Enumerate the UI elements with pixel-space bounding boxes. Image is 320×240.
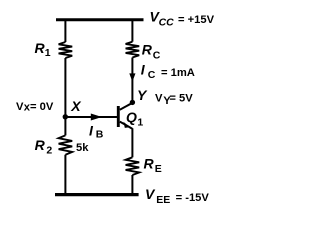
label Q1 xyxy=(126,109,143,128)
label RE xyxy=(144,156,162,176)
svg-text:CC: CC xyxy=(159,16,175,28)
transistor Q1 xyxy=(118,103,132,129)
label IC = 1mA xyxy=(141,62,195,81)
svg-text:X: X xyxy=(70,98,82,114)
wire RC to node Y xyxy=(131,58,133,103)
svg-text:C: C xyxy=(148,69,156,81)
svg-text:2: 2 xyxy=(46,145,52,157)
wire VCC rail to R1 xyxy=(64,19,66,43)
svg-text:V: V xyxy=(16,101,24,113)
wire emitter to RE xyxy=(131,128,133,157)
node X junction dot xyxy=(63,114,68,119)
svg-text:R: R xyxy=(142,42,153,58)
svg-text:Q: Q xyxy=(126,109,137,125)
svg-text:R: R xyxy=(35,137,46,153)
label RC xyxy=(142,42,161,62)
net label VEE = -15V xyxy=(145,186,209,206)
wire R1 to node X xyxy=(64,58,66,117)
wire VCC rail xyxy=(56,18,144,21)
current arrow IB xyxy=(91,114,102,121)
resistor R2 xyxy=(59,135,73,154)
node Y junction dot xyxy=(130,100,135,105)
svg-text:= 5V: = 5V xyxy=(169,92,193,104)
wire RE to VEE rail xyxy=(131,175,133,196)
wire VCC rail to RC xyxy=(131,19,133,42)
svg-text:EE: EE xyxy=(156,194,170,206)
svg-text:5k: 5k xyxy=(76,142,89,154)
svg-text:V: V xyxy=(145,186,156,202)
label Vx = 0V xyxy=(16,101,54,113)
svg-text:= +15V: = +15V xyxy=(178,14,215,26)
label R2 xyxy=(35,137,53,157)
label IB xyxy=(89,122,104,140)
label VY = 5V xyxy=(155,92,193,106)
svg-text:I: I xyxy=(141,62,146,78)
svg-text:= 0V: = 0V xyxy=(30,101,54,113)
net label VCC = +15V xyxy=(150,9,215,29)
wire R2 to VEE rail xyxy=(64,155,66,196)
wire node X to R2 xyxy=(64,117,66,136)
svg-text:E: E xyxy=(155,163,162,175)
svg-text:1: 1 xyxy=(137,116,143,128)
svg-text:I: I xyxy=(89,122,94,138)
svg-text:Y: Y xyxy=(137,87,148,103)
current arrow IC xyxy=(129,73,135,81)
svg-text:= 1mA: = 1mA xyxy=(161,67,195,79)
svg-text:= -15V: = -15V xyxy=(176,192,210,204)
resistor RC xyxy=(126,42,140,58)
resistor R1 xyxy=(59,42,73,58)
svg-text:C: C xyxy=(153,50,161,62)
resistor RE xyxy=(126,157,140,175)
wire VEE rail xyxy=(55,193,139,196)
wire base: node X to Q1 base xyxy=(65,116,117,118)
label R1 xyxy=(35,40,51,59)
svg-text:B: B xyxy=(96,129,104,141)
svg-text:1: 1 xyxy=(45,47,51,59)
svg-text:R: R xyxy=(144,156,155,172)
svg-text:V: V xyxy=(155,92,163,104)
